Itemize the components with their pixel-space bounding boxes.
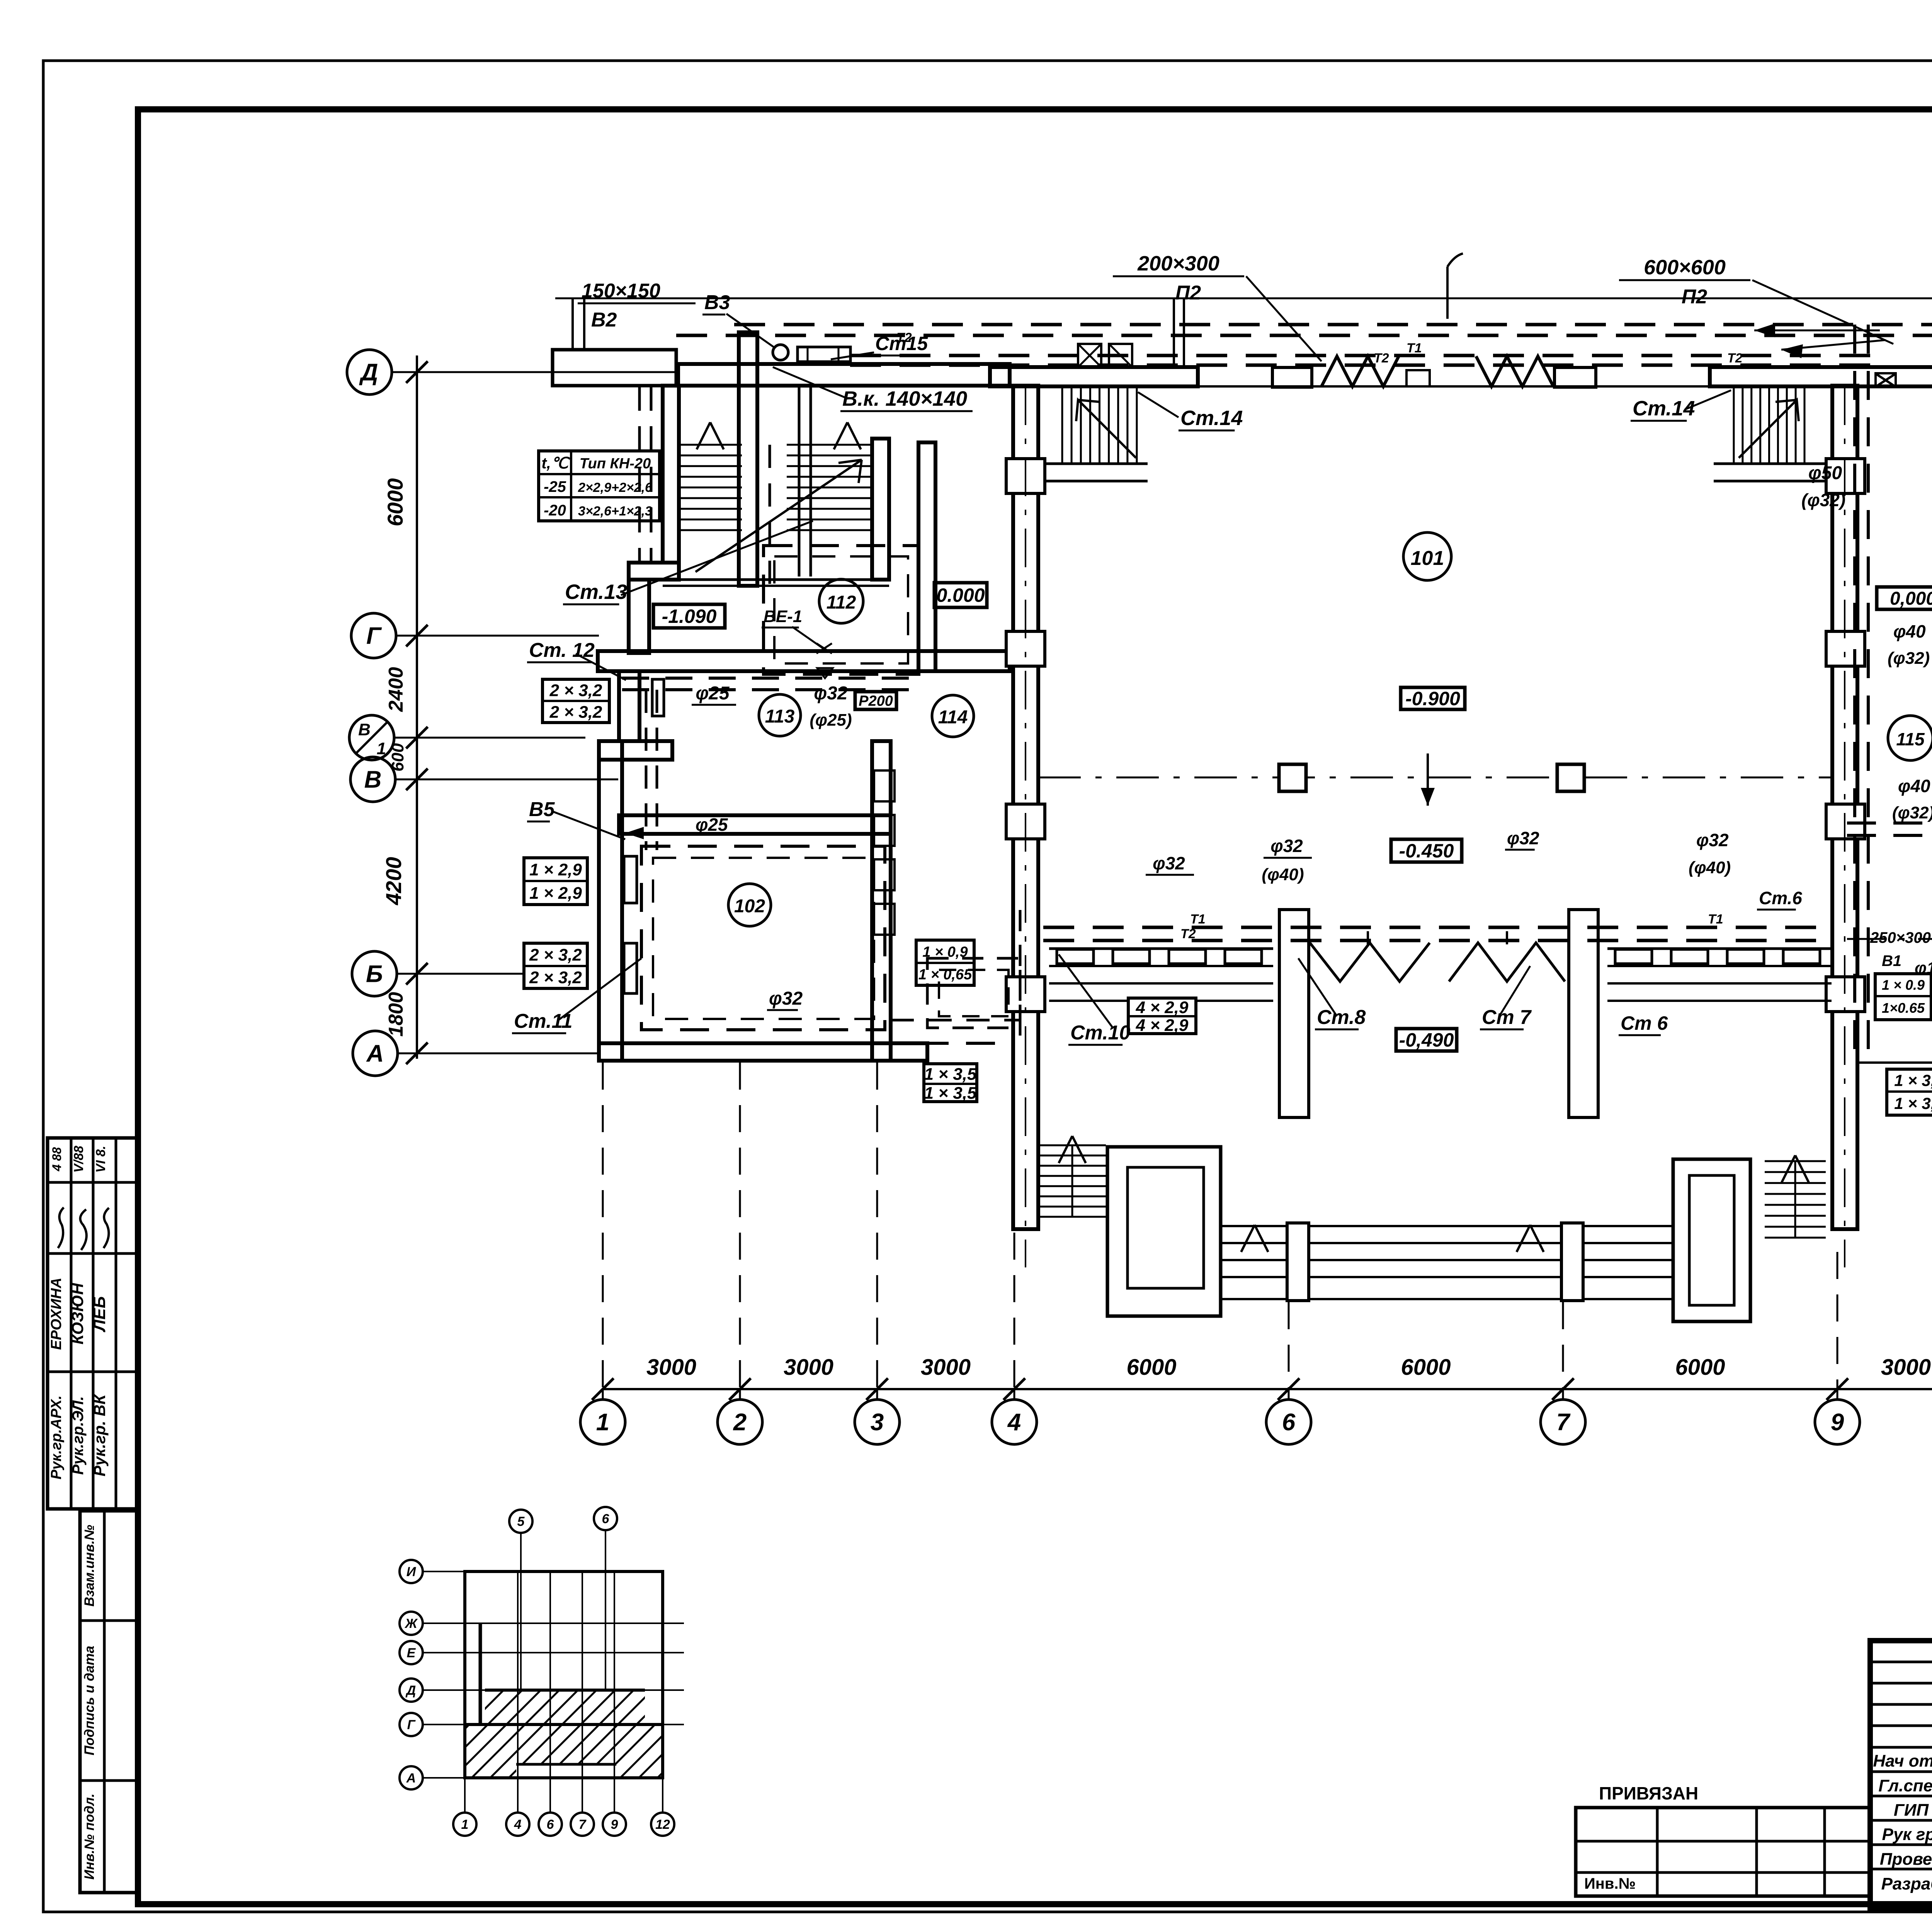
svg-text:(φ40): (φ40) (1262, 865, 1304, 884)
svg-text:-25: -25 (544, 478, 566, 495)
svg-text:115: 115 (1896, 729, 1925, 749)
svg-text:Ст 6: Ст 6 (1621, 1012, 1668, 1034)
svg-text:В: В (364, 767, 382, 793)
svg-text:Рук.гр.АРХ.: Рук.гр.АРХ. (48, 1395, 65, 1480)
svg-text:Ст 7: Ст 7 (1482, 1006, 1532, 1029)
svg-text:А: А (366, 1041, 384, 1067)
svg-text:В1: В1 (1882, 952, 1901, 969)
svg-text:И: И (406, 1565, 417, 1579)
svg-text:600×600: 600×600 (1644, 256, 1726, 279)
svg-text:(φ32): (φ32) (1801, 490, 1845, 510)
svg-text:Рук.гр. ВК: Рук.гр. ВК (90, 1393, 109, 1476)
svg-text:1 × 3,5: 1 × 3,5 (1894, 1094, 1932, 1112)
svg-text:Т1: Т1 (1406, 341, 1422, 355)
svg-text:ВЕ-1: ВЕ-1 (764, 607, 802, 626)
svg-text:Инв.№: Инв.№ (1584, 1875, 1636, 1892)
svg-text:101: 101 (1411, 547, 1444, 570)
svg-text:1800: 1800 (385, 992, 407, 1037)
svg-text:1 × 3,5: 1 × 3,5 (1894, 1071, 1932, 1090)
svg-text:Т2: Т2 (1180, 927, 1196, 941)
svg-text:Рук.гр.ЭЛ.: Рук.гр.ЭЛ. (70, 1396, 87, 1475)
svg-text:ЛЕБ: ЛЕБ (90, 1296, 109, 1333)
svg-text:-1.090: -1.090 (662, 605, 717, 627)
svg-text:4200: 4200 (381, 857, 406, 906)
svg-text:4: 4 (1007, 1409, 1021, 1436)
svg-text:Е: Е (407, 1646, 416, 1660)
svg-text:1: 1 (461, 1817, 469, 1832)
svg-text:-0.450: -0.450 (1399, 840, 1454, 862)
svg-text:φ32: φ32 (1507, 828, 1539, 848)
svg-text:ПРИВЯЗАН: ПРИВЯЗАН (1599, 1783, 1698, 1803)
svg-text:2 × 3,2: 2 × 3,2 (549, 702, 602, 721)
svg-text:102: 102 (734, 896, 765, 917)
svg-text:ЕРОХИНА: ЕРОХИНА (48, 1278, 65, 1350)
svg-text:Т1: Т1 (1190, 912, 1206, 927)
svg-text:1×0.65: 1×0.65 (1882, 1000, 1925, 1016)
svg-text:3000: 3000 (921, 1355, 971, 1380)
svg-text:5: 5 (517, 1514, 525, 1529)
svg-text:Нач отд.: Нач отд. (1873, 1752, 1932, 1770)
svg-text:2: 2 (733, 1409, 747, 1436)
svg-text:t,℃: t,℃ (541, 455, 570, 472)
svg-text:2 × 3,2: 2 × 3,2 (529, 968, 582, 987)
svg-text:9: 9 (611, 1817, 618, 1832)
svg-text:Ст.8: Ст.8 (1317, 1006, 1366, 1029)
svg-text:φ40: φ40 (1898, 776, 1930, 796)
svg-text:2 × 3,2: 2 × 3,2 (549, 681, 602, 700)
svg-text:ГИП: ГИП (1894, 1801, 1929, 1820)
svg-text:Д: Д (359, 359, 378, 386)
svg-text:Ст15: Ст15 (875, 333, 928, 354)
svg-text:4 × 2,9: 4 × 2,9 (1136, 998, 1189, 1017)
svg-text:Рук гр.: Рук гр. (1882, 1825, 1932, 1844)
svg-text:200×300: 200×300 (1137, 252, 1219, 275)
svg-text:1 × 2,9: 1 × 2,9 (529, 860, 582, 879)
svg-text:Ст.10: Ст.10 (1070, 1022, 1130, 1044)
svg-text:(φ32): (φ32) (1888, 649, 1930, 668)
svg-text:Провер: Провер (1880, 1850, 1932, 1869)
svg-text:Разраб: Разраб (1881, 1874, 1932, 1893)
svg-text:Б: Б (366, 961, 383, 988)
svg-text:3000: 3000 (784, 1355, 833, 1380)
svg-text:3×2,6+1×2,3: 3×2,6+1×2,3 (578, 504, 652, 519)
svg-text:6000: 6000 (383, 478, 407, 527)
svg-text:3000: 3000 (1881, 1355, 1931, 1380)
svg-text:0,000: 0,000 (1890, 588, 1932, 609)
svg-text:φ25: φ25 (696, 683, 730, 704)
svg-text:0.000: 0.000 (936, 585, 985, 606)
svg-text:В: В (358, 720, 371, 739)
svg-text:4: 4 (514, 1817, 522, 1832)
svg-text:Т1: Т1 (1708, 912, 1723, 927)
svg-text:Ст.6: Ст.6 (1759, 888, 1802, 908)
svg-text:В.к. 140×140: В.к. 140×140 (842, 387, 967, 410)
svg-text:3000: 3000 (646, 1355, 696, 1380)
svg-text:7: 7 (1556, 1409, 1571, 1436)
svg-text:П2: П2 (1682, 286, 1707, 308)
svg-text:Г: Г (407, 1718, 416, 1732)
svg-text:113: 113 (765, 706, 795, 727)
svg-text:4 × 2,9: 4 × 2,9 (1136, 1016, 1189, 1035)
svg-text:Т2: Т2 (1727, 351, 1743, 366)
svg-text:150×150: 150×150 (582, 280, 660, 302)
svg-text:φ25: φ25 (696, 815, 728, 835)
svg-text:Д: Д (405, 1683, 416, 1698)
svg-text:Ст.14: Ст.14 (1180, 406, 1243, 430)
svg-text:1: 1 (596, 1409, 609, 1436)
svg-text:6: 6 (547, 1817, 554, 1832)
svg-text:Инв.№ подл.: Инв.№ подл. (82, 1794, 97, 1880)
svg-text:В2: В2 (591, 309, 617, 331)
svg-text:1 × 3,5: 1 × 3,5 (924, 1083, 977, 1102)
svg-text:600: 600 (388, 743, 407, 772)
svg-text:2 × 3,2: 2 × 3,2 (529, 946, 582, 964)
svg-text:6: 6 (602, 1512, 610, 1526)
svg-text:Гл.спец: Гл.спец (1878, 1776, 1932, 1795)
svg-text:-0,490: -0,490 (1399, 1029, 1454, 1051)
svg-text:6000: 6000 (1401, 1355, 1451, 1380)
svg-text:Ст.13: Ст.13 (565, 580, 627, 604)
svg-text:2400: 2400 (385, 667, 407, 712)
svg-text:φ32: φ32 (814, 683, 847, 704)
svg-text:φ32: φ32 (769, 988, 803, 1009)
svg-text:7: 7 (579, 1817, 587, 1832)
svg-text:V/88: V/88 (71, 1146, 86, 1173)
svg-text:А: А (406, 1771, 416, 1786)
svg-text:(φ32): (φ32) (1892, 803, 1932, 822)
svg-text:(φ40): (φ40) (1689, 858, 1731, 877)
svg-text:Подпись и дата: Подпись и дата (82, 1646, 97, 1755)
svg-text:4 88: 4 88 (50, 1147, 64, 1172)
svg-text:VI 8.: VI 8. (94, 1146, 108, 1173)
svg-text:6000: 6000 (1675, 1355, 1725, 1380)
svg-text:6: 6 (1282, 1409, 1296, 1436)
svg-text:1: 1 (377, 739, 386, 758)
svg-text:КОЗЮН: КОЗЮН (68, 1282, 87, 1345)
svg-text:П2: П2 (1175, 282, 1201, 304)
svg-text:3: 3 (871, 1409, 884, 1436)
svg-text:6000: 6000 (1126, 1355, 1176, 1380)
svg-text:φ32: φ32 (1696, 830, 1729, 850)
svg-text:1 × 3,5: 1 × 3,5 (924, 1065, 977, 1083)
svg-text:114: 114 (938, 707, 968, 728)
svg-text:12: 12 (655, 1817, 670, 1832)
svg-text:-0.900: -0.900 (1405, 688, 1460, 709)
svg-text:φ40: φ40 (1893, 621, 1926, 641)
svg-text:φ32: φ32 (1153, 853, 1185, 873)
svg-text:112: 112 (827, 592, 856, 613)
svg-text:Г: Г (366, 623, 382, 650)
svg-text:Ж: Ж (404, 1616, 418, 1631)
svg-text:Взам.инв.№: Взам.инв.№ (82, 1525, 97, 1607)
svg-text:В5: В5 (529, 798, 555, 821)
svg-text:φ32: φ32 (1270, 836, 1303, 856)
svg-text:1 × 0.9: 1 × 0.9 (1882, 977, 1925, 993)
svg-text:Ст.11: Ст.11 (514, 1010, 573, 1032)
svg-text:9: 9 (1831, 1409, 1844, 1436)
svg-text:Т2: Т2 (1374, 351, 1389, 366)
svg-text:Р200: Р200 (859, 693, 893, 709)
svg-text:250×300: 250×300 (1870, 929, 1931, 946)
svg-text:2×2,9+2×2,6: 2×2,9+2×2,6 (578, 480, 653, 495)
svg-text:-20: -20 (544, 502, 566, 519)
svg-text:В3: В3 (704, 291, 730, 314)
svg-text:φ50: φ50 (1808, 463, 1842, 483)
svg-text:(φ25): (φ25) (810, 711, 852, 730)
svg-text:1 × 2,9: 1 × 2,9 (529, 884, 582, 903)
